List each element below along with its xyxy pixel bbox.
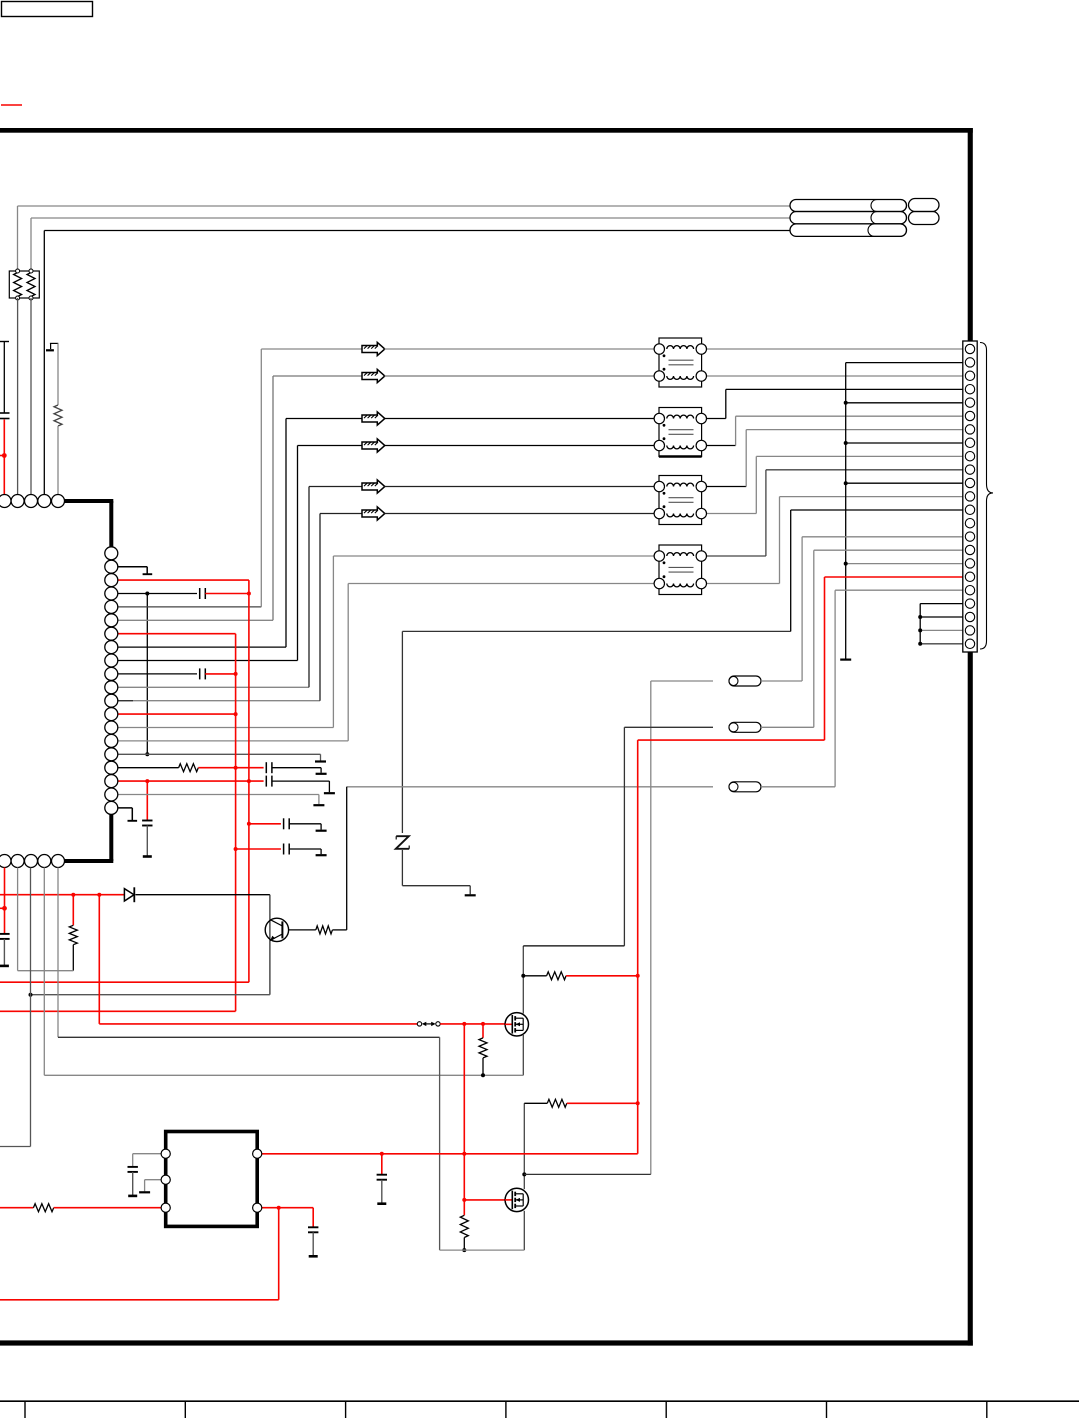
wire riser4 — [297, 446, 299, 661]
wire red to pin row — [3, 420, 5, 495]
ruler tick 2 — [184, 1401, 186, 1418]
IC U1 bottom edge — [62, 859, 113, 863]
wire M1 gate res — [523, 975, 546, 977]
signal arrow 5 — [362, 480, 385, 493]
wire bead A right / to J1-15 — [761, 680, 802, 682]
ferrite bead FB-B — [729, 722, 761, 732]
jumper JP1 — [417, 1022, 421, 1026]
wire arrow5 to transformer — [385, 486, 660, 488]
transformer T2 — [654, 408, 706, 457]
shield pill row3 — [790, 224, 907, 237]
wire red V249 — [248, 580, 250, 982]
wire net2 top — [31, 217, 790, 219]
capacitor C849 — [283, 844, 285, 855]
capacitor C824 — [283, 818, 285, 829]
wire red pin row to diode — [0, 894, 125, 896]
wire nc to J1-20 — [920, 603, 963, 605]
wire riser13 — [790, 510, 792, 631]
shield pill row2 — [790, 212, 907, 224]
wire pin4 — [112, 593, 197, 595]
diode D1 — [124, 889, 134, 901]
resistor RP1a — [14, 273, 22, 297]
wire M2 source — [523, 1211, 525, 1250]
wire red H1011 — [0, 1010, 236, 1012]
transistor Q1 — [265, 918, 288, 941]
capacitor C_p10 — [199, 668, 201, 679]
wire arrow2 to transformer — [385, 375, 660, 377]
wire q1 riser — [346, 787, 348, 930]
ruler tick 6 — [826, 1401, 828, 1418]
border frame top — [0, 128, 973, 133]
wire gray h970 — [18, 970, 74, 972]
wire red 5V rail — [262, 1153, 638, 1155]
signal arrow 1 — [362, 342, 385, 355]
wire net3 top — [44, 230, 790, 232]
ruler tick 1 — [24, 1401, 26, 1418]
resistor Rpd1 red lead — [482, 1024, 484, 1038]
wire pin7 red — [112, 633, 236, 635]
wire M1 source row — [44, 1074, 523, 1076]
resistor R_u2 — [33, 1204, 53, 1212]
wire nc to J1-23 — [920, 643, 963, 645]
wire bead C left — [347, 786, 713, 788]
wire net1 top — [18, 205, 791, 207]
wire bead C right / to J1-19 — [761, 786, 835, 788]
capacitor C_out — [308, 1226, 318, 1228]
wire red bottom — [0, 1299, 279, 1301]
wire pin3 red — [112, 579, 249, 581]
wire pin12 — [112, 700, 320, 702]
wire Q1 emitter return — [31, 994, 270, 996]
wire M1 drain up — [522, 946, 524, 1014]
wire T4 top to J1-10 — [701, 555, 766, 557]
wire bead A left — [651, 680, 713, 682]
red revision dash — [1, 104, 22, 106]
ferrite Z1 — [396, 836, 409, 849]
wire pin13 red — [112, 713, 236, 715]
bottom ruler line — [0, 1400, 1079, 1402]
wire arrow4 to transformer — [385, 445, 660, 447]
ferrite bead FB-C — [729, 782, 761, 792]
connector J1 — [963, 341, 977, 652]
wire bead B left — [624, 726, 713, 728]
wire U2 pin rb red — [259, 1207, 262, 1209]
wire bpin1 red — [4, 868, 6, 895]
wire red supply vertical — [637, 740, 639, 1154]
wire gnd to J1-2 — [846, 362, 963, 364]
wire pin10 — [112, 673, 197, 675]
resistor Rpd1 — [479, 1038, 487, 1058]
wire bpin3 — [30, 868, 32, 1147]
IC U1 pin column — [105, 547, 118, 560]
wire loop v439 — [439, 1037, 441, 1250]
wire bpin4 — [43, 868, 45, 1076]
wire red gate M1 — [99, 1023, 417, 1025]
capacitor C17 — [265, 762, 267, 773]
wire nc bracket vertical — [919, 604, 921, 644]
resistor Rpd2 — [460, 1215, 468, 1237]
capacitor C_u2a — [128, 1166, 138, 1168]
ferrite bead FB-A — [729, 676, 761, 686]
wire bead A drop join — [524, 1173, 651, 1175]
wire red V236 — [235, 634, 237, 1012]
wire riser1 — [260, 349, 262, 607]
wire pin19 — [112, 794, 319, 796]
wire riser2 — [272, 376, 274, 620]
wire red H982 — [0, 981, 249, 983]
transformer T1 — [654, 338, 706, 387]
wire bus vertical — [146, 594, 148, 755]
wire U2 pin lm — [145, 1179, 163, 1181]
op IC U1 top edge — [62, 499, 113, 503]
wire pin5 — [112, 606, 261, 608]
resistor pack RP1 box — [9, 271, 39, 298]
shield pill row1 — [790, 200, 907, 212]
wire pin11 — [112, 686, 309, 688]
resistor R2 — [54, 405, 62, 426]
wire riser5 — [308, 487, 310, 688]
wire arrow6 to transformer — [385, 513, 660, 515]
wire red v99 — [98, 895, 100, 1024]
pin20 stub — [112, 807, 132, 809]
border frame bottom — [0, 1340, 973, 1345]
wire gnd to J1-8 — [846, 442, 963, 444]
wire T3 bot to J1-9 — [701, 513, 756, 515]
capacitor C_rail — [381, 1154, 383, 1175]
wire U2 pin lb red — [0, 1207, 33, 1209]
wire arrow3 to transformer — [385, 418, 660, 420]
wire Q1 collector line — [269, 895, 271, 995]
wire to R2 — [57, 343, 59, 405]
wire C_p4 red — [205, 593, 249, 595]
wire Z vertical lower — [401, 850, 403, 886]
capacitor C18 — [265, 776, 267, 787]
wire M2 source row — [440, 1249, 525, 1251]
transformer T3 — [654, 476, 706, 525]
signal arrow 3 — [362, 412, 385, 425]
wire rp1b down — [30, 298, 32, 495]
wire red supply riser to J1-18 — [824, 577, 826, 740]
logic-level symbol top — [50, 342, 58, 344]
wire gnd to J1-5 — [846, 402, 963, 404]
wire gnd to J1-11 — [846, 482, 963, 484]
border frame right — [968, 128, 973, 1346]
ruler tick 4 — [505, 1401, 507, 1418]
wire red supply horizontal — [638, 739, 825, 741]
wire red out row — [262, 1207, 314, 1209]
wire to arrow1 — [261, 348, 362, 350]
ruler tick 5 — [665, 1401, 667, 1418]
signal arrow 2 — [362, 369, 385, 382]
resistor Rq1 — [316, 926, 333, 934]
wire to arrow6 — [320, 513, 363, 515]
wire loop h1037 — [58, 1036, 440, 1038]
ruler tick 7 — [986, 1401, 988, 1418]
resistor R73 — [69, 925, 77, 944]
wire nc to J1-21 — [920, 616, 963, 618]
wire Z vertical upper — [401, 631, 403, 833]
wire M1 drain top — [523, 945, 624, 947]
wire pin15 — [112, 740, 348, 742]
wire to arrow3 — [286, 418, 363, 420]
wire bpin2 — [17, 868, 19, 971]
wire riser3 — [285, 419, 287, 648]
capacitor C_left_top plates — [0, 412, 10, 414]
wire bead B right / to J1-16 — [761, 726, 814, 728]
wire rp1a down — [17, 298, 19, 495]
wire Q1 base — [289, 929, 316, 931]
wire red cap824 — [249, 823, 281, 825]
wire riser7 — [332, 556, 334, 728]
wire U2 pin lt — [133, 1153, 163, 1155]
wire red v464 — [463, 1024, 465, 1215]
wire T4 bot left — [348, 583, 659, 585]
capacitor C19 red drop — [146, 781, 148, 820]
pin2 stub — [112, 566, 147, 568]
wire pin8 — [112, 646, 286, 648]
signal arrow 4 — [362, 439, 385, 452]
wire red gate M1 b — [440, 1023, 505, 1025]
resistor Rg1 — [547, 972, 567, 980]
IC U1 top pin row — [0, 495, 11, 508]
wire T1 bot to J1-3 — [701, 375, 963, 377]
wire pin17 — [112, 767, 179, 769]
mosfet M1 — [505, 1013, 528, 1036]
capacitor C_p4 — [199, 588, 201, 599]
wire Z horizontal — [402, 630, 790, 632]
wire T2 bot to J1-6 — [701, 445, 735, 447]
wire M2 gate red — [464, 1199, 505, 1201]
wire pin6 — [112, 619, 273, 621]
wire U2 pin rt red — [259, 1153, 262, 1155]
wire red cap849 — [236, 848, 281, 850]
regulator U2 — [166, 1132, 258, 1227]
wire gnd bus vertical — [845, 363, 847, 660]
wire pin16 — [112, 753, 321, 755]
wire pin9 — [112, 660, 298, 662]
wire T2 top to J1-4 — [701, 418, 726, 420]
node red offpage — [0, 455, 4, 457]
wire to arrow2 — [273, 375, 363, 377]
title block box top-left — [2, 2, 93, 17]
wire T4 top left — [333, 555, 659, 557]
U2 pins — [161, 1149, 170, 1158]
connector brace — [980, 343, 993, 650]
wire bpin5 — [57, 868, 59, 1038]
wire to arrow5 — [309, 486, 363, 488]
resistor RP1b — [27, 273, 35, 297]
wire nc to J1-22 — [920, 629, 963, 631]
wire riser8 — [347, 584, 349, 741]
wire red down — [278, 1208, 280, 1300]
capacitor C_left_bot — [4, 895, 6, 933]
wire riser6 — [319, 514, 321, 701]
transformer T4 — [654, 545, 706, 595]
wire pin18 red — [112, 780, 264, 782]
wire M1 source down — [522, 1035, 524, 1075]
signal arrow 6 — [362, 507, 385, 520]
wire M2 drain res — [524, 1102, 547, 1104]
wire pin14 — [112, 727, 333, 729]
wire T1 top to J1-1 — [701, 348, 963, 350]
resistor R17 — [179, 764, 199, 772]
ruler tick 3 — [345, 1401, 347, 1418]
wire diode to Q1 — [136, 894, 270, 896]
mosfet M2 — [505, 1188, 528, 1211]
wire bead B drop — [623, 727, 625, 946]
wire to J1-13 — [791, 509, 963, 511]
wire red v73 — [72, 895, 74, 926]
IC U1 bottom pin row — [0, 855, 11, 868]
capacitor C_left_top lead — [0, 341, 9, 343]
wire T4 bot to J1-12 — [701, 583, 779, 585]
gnd bus bar — [840, 658, 851, 660]
wire to arrow4 — [298, 445, 363, 447]
wire arrow1 to transformer — [385, 348, 660, 350]
wire R2 down — [57, 426, 59, 495]
wire T3 top to J1-7 — [701, 486, 746, 488]
wire M2 drain — [523, 1103, 525, 1189]
wire gnd to J1-17 — [846, 563, 963, 565]
resistor Rg2 — [547, 1099, 567, 1107]
